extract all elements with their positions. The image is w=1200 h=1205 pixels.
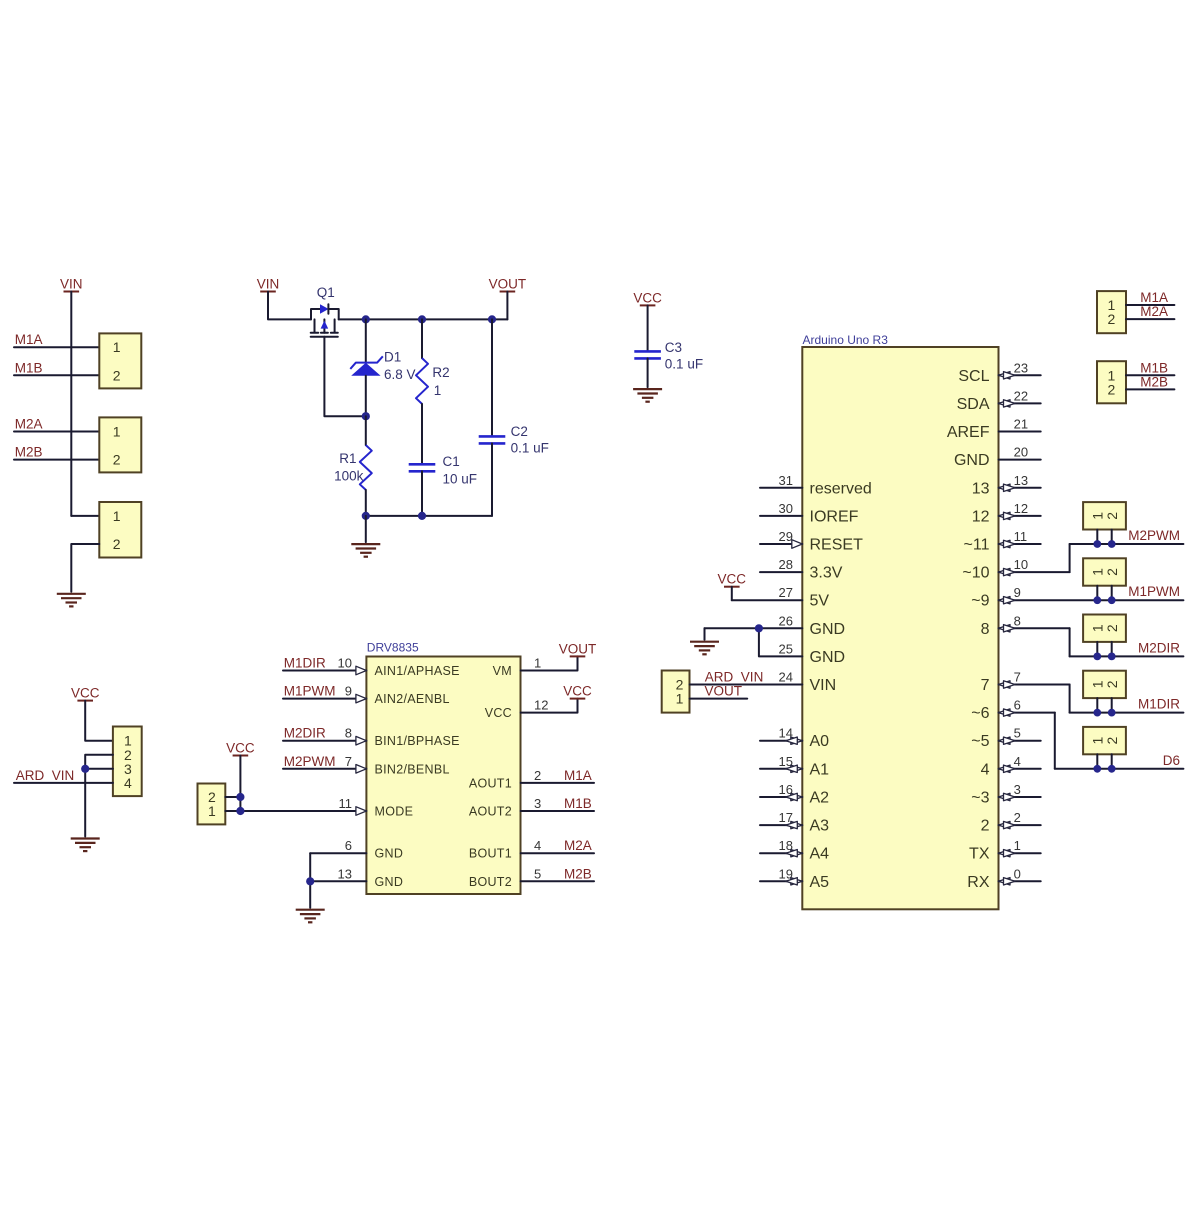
wire C1 to ground rail	[421, 471, 423, 516]
wire Arduino pin 0 RX stub (right)	[967, 866, 1040, 891]
svg-text:M2DIR: M2DIR	[284, 726, 326, 741]
wire net ARD_VIN to J-PWR2 pin 4	[14, 768, 113, 783]
svg-text:12: 12	[972, 508, 990, 525]
wire Arduino pin 9 ~9 stub (right)	[971, 585, 1183, 610]
transistor Q1 (reverse protection P-MOSFET)	[311, 285, 339, 337]
junction M2DIR pin2	[1108, 653, 1116, 661]
ground (J-PWR2)	[71, 839, 100, 852]
svg-text:AOUT2: AOUT2	[469, 805, 512, 819]
svg-text:M1A: M1A	[564, 768, 592, 783]
wire M2DIR rail	[1070, 640, 1184, 656]
connector J-MODE (2-pin)	[198, 784, 226, 825]
wire Arduino pin 8 8 stub (right)	[981, 613, 1070, 638]
junction GND riser / pin 3	[81, 765, 89, 773]
svg-text:VCC: VCC	[485, 706, 512, 720]
connector J-M2 (motor 2 output)	[99, 417, 141, 472]
svg-text:R1: R1	[339, 451, 356, 466]
ground (DRV8835)	[296, 910, 325, 923]
svg-text:4: 4	[124, 775, 132, 791]
wire GND riser	[309, 853, 311, 908]
svg-text:7: 7	[345, 754, 352, 769]
power symbol VCC (DRV pin 12)	[563, 684, 592, 699]
capacitor C2 0.1 uF	[492, 319, 549, 455]
svg-text:1: 1	[113, 339, 121, 355]
wire DRV8835 pin 4 BOUT1 to net M2A	[469, 838, 594, 861]
svg-text:2: 2	[1104, 736, 1120, 744]
wire Arduino pin 16 A2 stub	[760, 782, 829, 807]
svg-text:M2PWM: M2PWM	[1128, 528, 1180, 543]
ground (C3)	[633, 389, 662, 402]
ground (below J-PWR)	[57, 594, 86, 607]
power symbol VCC (J-PWR2)	[71, 686, 100, 701]
svg-text:VIN: VIN	[810, 677, 837, 694]
svg-text:M2DIR: M2DIR	[1138, 640, 1180, 655]
junction GND 26/25	[755, 624, 763, 632]
capacitor C3 plates	[634, 351, 661, 358]
svg-text:5: 5	[1014, 726, 1021, 741]
svg-text:2: 2	[113, 452, 121, 468]
wire Arduino pin 2 2 stub (right)	[981, 810, 1041, 835]
svg-text:9: 9	[1014, 585, 1021, 600]
wire Arduino pin 6 ~6 stub (right)	[971, 698, 1055, 723]
wire M2PWM rail	[1070, 528, 1184, 544]
svg-text:M1A: M1A	[1140, 290, 1168, 305]
svg-text:RX: RX	[967, 874, 990, 891]
svg-text:29: 29	[779, 529, 793, 544]
node M1B wire (left)	[14, 360, 99, 375]
wire DRV8835 pin 5 BOUT2 to net M2B	[469, 866, 594, 889]
svg-text:BOUT1: BOUT1	[469, 847, 512, 861]
svg-text:A2: A2	[810, 790, 830, 807]
wire net M1PWM to DRV8835 pin 9	[283, 684, 450, 707]
svg-text:AIN2/AENBL: AIN2/AENBL	[375, 692, 450, 706]
resistor R1 body	[360, 445, 372, 490]
svg-text:~5: ~5	[971, 733, 989, 750]
wire pin 7 riser to M1DIR rail	[1069, 685, 1071, 713]
connector J-M1DIR jumper	[1083, 671, 1126, 698]
svg-text:TX: TX	[969, 846, 990, 863]
connector J-M1BM2B (top right)	[1097, 361, 1126, 403]
junction gate/D1/R1 node	[362, 412, 370, 420]
connector J-ARDVIN (2-pin, ARD_VIN/VOUT)	[662, 671, 690, 713]
svg-text:A3: A3	[810, 818, 830, 835]
wire Arduino pin 4 4 stub (right)	[981, 754, 1041, 779]
wire VOUT riser	[506, 292, 508, 320]
svg-text:M1A: M1A	[15, 332, 43, 347]
junction M2DIR pin1	[1093, 653, 1101, 661]
svg-text:VM: VM	[493, 664, 512, 678]
wire Arduino pin 21 AREF stub (right)	[947, 417, 1041, 442]
svg-text:2: 2	[1104, 568, 1120, 576]
wire DRV8835 pin 12 VCC	[485, 698, 578, 721]
power symbol VOUT (DRV VM pin)	[559, 641, 597, 656]
svg-text:GND: GND	[375, 847, 404, 861]
wire GND from J-PWR pin 2	[71, 544, 99, 592]
capacitor C3 0.1 uF	[665, 340, 703, 372]
svg-text:MODE: MODE	[375, 805, 414, 819]
power symbol VIN (left column)	[60, 277, 83, 292]
svg-text:A5: A5	[810, 874, 830, 891]
wire J-PWR2 pin 3	[85, 768, 113, 770]
svg-text:2: 2	[1104, 624, 1120, 632]
wire pin 8 riser to M2DIR rail	[1069, 628, 1071, 656]
svg-text:BOUT2: BOUT2	[469, 875, 512, 889]
wire Arduino pin 3 ~3 stub (right)	[971, 782, 1040, 807]
svg-text:7: 7	[981, 677, 990, 694]
svg-text:22: 22	[1014, 388, 1028, 403]
svg-text:6: 6	[1014, 698, 1021, 713]
svg-text:2: 2	[981, 818, 990, 835]
wire Arduino pin 18 A4 stub	[760, 838, 829, 863]
svg-text:ARD_VIN: ARD_VIN	[705, 670, 764, 685]
wire VCC down to MODE net	[239, 756, 241, 812]
wire VCC to C3	[647, 305, 649, 351]
svg-text:12: 12	[534, 698, 548, 713]
junction VM rail / R2	[418, 315, 426, 323]
svg-text:11: 11	[339, 796, 353, 811]
svg-text:A4: A4	[810, 846, 830, 863]
wire Arduino pin 20 GND stub (right)	[954, 445, 1041, 470]
svg-text:AIN1/APHASE: AIN1/APHASE	[375, 664, 460, 678]
wire Arduino pin 27 5V stub	[732, 585, 830, 610]
wire D6 rail	[1055, 753, 1184, 769]
junction VM rail / C2	[488, 315, 496, 323]
wire net M2PWM to DRV8835 pin 7	[283, 754, 450, 777]
wire net M1DIR to DRV8835 pin 10	[283, 656, 460, 679]
wire net M1A (top right)	[1126, 290, 1174, 305]
svg-text:M2A: M2A	[15, 417, 43, 432]
svg-text:A0: A0	[810, 733, 830, 750]
wire Arduino pin 14 A0 stub	[760, 726, 829, 751]
svg-text:RESET: RESET	[810, 537, 864, 554]
svg-text:M1PWM: M1PWM	[1128, 584, 1180, 599]
power symbol VOUT (protection circuit)	[489, 277, 527, 292]
junction M1DIR pin2	[1108, 709, 1116, 717]
svg-text:30: 30	[779, 501, 793, 516]
wire pin 6 riser to D6 rail	[1054, 713, 1056, 769]
svg-text:VIN: VIN	[60, 277, 83, 292]
wire M1DIR rail	[1070, 697, 1184, 713]
svg-text:GND: GND	[810, 621, 846, 638]
junction GND pins	[306, 877, 314, 885]
node M1A wire (left)	[14, 332, 99, 347]
svg-text:4: 4	[981, 761, 990, 778]
wire Arduino pin 10 ~10 stub (right)	[962, 557, 1069, 582]
wire ground rail of protection circuit	[366, 515, 492, 517]
svg-text:M1B: M1B	[15, 360, 43, 375]
junction MODE/VCC riser	[236, 807, 244, 815]
junction M1PWM pin2	[1108, 596, 1116, 604]
wire MODE net to DRV8835 pin 11	[225, 796, 413, 819]
capacitor C1 plates	[409, 464, 436, 471]
junction M1PWM pin1	[1093, 596, 1101, 604]
svg-text:31: 31	[779, 473, 793, 488]
wire Arduino pin 26 GND	[705, 627, 803, 629]
svg-text:2: 2	[1104, 512, 1120, 520]
svg-text:10: 10	[338, 656, 352, 671]
svg-text:~9: ~9	[971, 593, 989, 610]
power symbol VCC (MODE pull-up)	[226, 741, 255, 756]
svg-text:GND: GND	[954, 452, 990, 469]
wire Arduino pin 11 ~11 stub (right)	[964, 529, 1041, 554]
svg-text:D6: D6	[1163, 753, 1180, 768]
junction VCC/pin2	[236, 793, 244, 801]
wire net VOUT stub from J-ARDVIN pin 1	[690, 684, 748, 699]
wire Arduino pin 29 RESET stub	[760, 529, 863, 554]
wire Arduino pin 12 12 stub (right)	[972, 501, 1041, 526]
svg-text:VOUT: VOUT	[489, 277, 527, 292]
svg-text:M2B: M2B	[564, 866, 592, 881]
wire Arduino pin 28 3.3V stub	[760, 557, 843, 582]
wire Arduino pin 22 SDA stub (right)	[957, 388, 1041, 413]
svg-text:3: 3	[534, 796, 541, 811]
wire Arduino pin 13 13 stub (right)	[972, 473, 1041, 498]
resistor R1 100k	[334, 416, 366, 483]
junction D6 pin2	[1108, 765, 1116, 773]
svg-text:10: 10	[1014, 557, 1028, 572]
svg-text:0.1 uF: 0.1 uF	[665, 357, 703, 372]
svg-text:21: 21	[1014, 417, 1028, 432]
wire Arduino pin 5 ~5 stub (right)	[971, 726, 1040, 751]
svg-text:1: 1	[676, 691, 684, 707]
svg-text:R2: R2	[432, 365, 449, 380]
svg-text:~6: ~6	[971, 705, 989, 722]
svg-text:~10: ~10	[962, 565, 989, 582]
wire Arduino pin 25 GND	[759, 628, 802, 656]
wire net M1B (top right)	[1126, 360, 1174, 375]
svg-text:20: 20	[1014, 445, 1028, 460]
resistor R2 body	[416, 358, 428, 404]
svg-text:0: 0	[1014, 866, 1021, 881]
svg-text:6.8 V: 6.8 V	[384, 367, 416, 382]
wire Arduino pin 26 GND stub	[779, 613, 846, 638]
svg-text:10 uF: 10 uF	[443, 472, 478, 487]
wire DRV8835 pin 6 GND	[310, 838, 403, 861]
svg-text:1: 1	[208, 803, 216, 819]
junction VM rail / D1	[362, 315, 370, 323]
svg-text:M1B: M1B	[1140, 360, 1168, 375]
svg-text:VCC: VCC	[226, 741, 255, 756]
svg-text:M2B: M2B	[15, 445, 43, 460]
svg-text:1: 1	[113, 508, 121, 524]
junction D6 pin1	[1093, 765, 1101, 773]
svg-text:7: 7	[1014, 670, 1021, 685]
svg-text:GND: GND	[375, 875, 404, 889]
wire Arduino pin 1 TX stub (right)	[969, 838, 1041, 863]
wire net ARD_VIN to Arduino VIN pin 24	[690, 670, 803, 685]
svg-text:VOUT: VOUT	[705, 684, 743, 699]
svg-text:C3: C3	[665, 340, 682, 355]
svg-text:VCC: VCC	[563, 684, 592, 699]
svg-text:13: 13	[1014, 473, 1028, 488]
svg-text:26: 26	[779, 613, 793, 628]
junction rail/R1	[362, 512, 370, 520]
wire VCC to J-PWR2 pin 1	[85, 701, 113, 741]
junction rail/C1	[418, 512, 426, 520]
svg-text:28: 28	[779, 557, 793, 572]
svg-text:2: 2	[113, 536, 121, 552]
wire R2 to C1	[421, 404, 423, 464]
junction M2PWM pin1	[1093, 540, 1101, 548]
diode D1 zener 6.8 V	[350, 319, 415, 416]
IC U1 Arduino Uno R3	[802, 333, 998, 909]
svg-text:1: 1	[1014, 838, 1021, 853]
svg-text:IOREF: IOREF	[810, 508, 859, 525]
wire VIN to Q1 source	[268, 292, 311, 320]
wire Arduino pin 24 VIN stub	[779, 670, 837, 695]
wire J-MODE pin2 to VCC net	[225, 796, 240, 798]
svg-text:27: 27	[779, 585, 793, 600]
wire VIN vertical bus (left column)	[71, 292, 99, 516]
junction M1DIR pin1	[1093, 709, 1101, 717]
svg-text:100k: 100k	[334, 469, 364, 484]
svg-text:M2PWM: M2PWM	[284, 754, 336, 769]
wire rail to ground stub	[365, 516, 367, 542]
wire DRV8835 pin 1 VM to VOUT	[493, 656, 578, 679]
svg-text:8: 8	[981, 621, 990, 638]
connector J-M2DIR jumper	[1083, 615, 1126, 642]
svg-text:SCL: SCL	[958, 368, 989, 385]
wire Q1 gate down to R1/D1 node	[324, 337, 363, 416]
svg-text:13: 13	[338, 866, 352, 881]
wire net M2B (top right)	[1126, 374, 1174, 389]
wire Arduino pin 23 SCL stub (right)	[958, 360, 1040, 385]
capacitor C1 10 uF	[443, 454, 478, 487]
junction M2PWM pin2	[1108, 540, 1116, 548]
wire C2 to ground rail	[491, 443, 493, 516]
connector J-D6 jumper	[1083, 727, 1126, 754]
svg-text:11: 11	[1014, 529, 1028, 544]
svg-text:13: 13	[972, 480, 990, 497]
wire R1 to ground rail	[365, 490, 367, 516]
svg-text:5: 5	[534, 866, 541, 881]
svg-text:~3: ~3	[971, 790, 989, 807]
svg-text:BIN2/BENBL: BIN2/BENBL	[375, 762, 450, 776]
svg-text:2: 2	[1108, 381, 1116, 397]
connector J-M2PWM jumper	[1083, 502, 1126, 529]
ground (protection circuit)	[351, 544, 380, 557]
svg-text:2: 2	[113, 367, 121, 383]
wire C3 to ground	[647, 358, 649, 387]
connector J-M1AM2A (top right)	[1097, 291, 1126, 333]
wire Arduino pin 17 A3 stub	[760, 810, 829, 835]
svg-text:BIN1/BPHASE: BIN1/BPHASE	[375, 734, 460, 748]
wire Arduino pin 7 7 stub (right)	[981, 670, 1070, 695]
svg-text:2: 2	[1014, 810, 1021, 825]
svg-text:0.1 uF: 0.1 uF	[511, 441, 549, 456]
svg-text:SDA: SDA	[957, 396, 990, 413]
svg-text:M1DIR: M1DIR	[284, 656, 326, 671]
capacitor C2 plates	[479, 436, 506, 443]
wire net M2A (top right)	[1126, 304, 1174, 319]
svg-text:VCC: VCC	[71, 686, 100, 701]
connector J-M1PWM jumper	[1083, 558, 1126, 585]
svg-text:2: 2	[1108, 311, 1116, 327]
svg-text:VCC: VCC	[718, 572, 747, 587]
svg-text:A1: A1	[810, 761, 830, 778]
wire Arduino pin 31 reserved stub	[760, 473, 872, 498]
svg-text:12: 12	[1014, 501, 1028, 516]
svg-text:M1DIR: M1DIR	[1138, 697, 1180, 712]
connector J-PWR2 (4-pin)	[113, 727, 142, 797]
wire VCC riser to 5V pin	[731, 587, 733, 601]
wire net M2DIR to DRV8835 pin 8	[283, 726, 460, 749]
svg-text:M1PWM: M1PWM	[284, 684, 336, 699]
svg-text:M2B: M2B	[1140, 374, 1168, 389]
wire Arduino pin 25 GND stub	[779, 641, 846, 666]
svg-text:8: 8	[345, 726, 352, 741]
svg-text:AOUT1: AOUT1	[469, 776, 512, 790]
wire DRV8835 pin 2 AOUT1 to net M1A	[469, 768, 594, 791]
svg-text:reserved: reserved	[810, 480, 872, 497]
svg-text:1: 1	[434, 383, 442, 398]
power symbol VIN (protection circuit)	[257, 277, 280, 292]
svg-text:M1B: M1B	[564, 796, 592, 811]
wire GND stub down	[704, 628, 706, 639]
resistor R2 1	[422, 319, 450, 398]
ground (Arduino GND pins)	[690, 642, 719, 655]
svg-text:5V: 5V	[810, 593, 830, 610]
svg-text:4: 4	[534, 838, 541, 853]
power symbol VCC (Arduino 5V)	[718, 572, 747, 587]
wire DRV8835 pin 3 AOUT2 to net M1B	[469, 796, 594, 819]
wire J-PWR2 pin 2 to GND riser	[85, 755, 113, 837]
svg-text:AREF: AREF	[947, 424, 990, 441]
wire Arduino pin 19 A5 stub	[760, 866, 829, 891]
wire Arduino pin 30 IOREF stub	[760, 501, 859, 526]
svg-text:DRV8835: DRV8835	[367, 640, 419, 654]
svg-text:3: 3	[1014, 782, 1021, 797]
node M2A wire (left)	[14, 417, 99, 432]
power symbol VCC (C3)	[633, 290, 662, 305]
svg-text:25: 25	[779, 641, 793, 656]
svg-text:1: 1	[534, 656, 541, 671]
svg-text:23: 23	[1014, 360, 1028, 375]
IC U2 DRV8835 motor driver	[366, 640, 520, 894]
svg-text:VOUT: VOUT	[559, 641, 597, 656]
svg-text:2: 2	[1104, 680, 1120, 688]
svg-text:D1: D1	[384, 350, 401, 365]
connector J-PWR (VIN/GND input)	[99, 502, 141, 558]
svg-text:6: 6	[345, 838, 352, 853]
svg-text:M2A: M2A	[564, 838, 592, 853]
svg-text:4: 4	[1014, 754, 1021, 769]
svg-text:Arduino Uno R3: Arduino Uno R3	[803, 333, 889, 347]
svg-text:M2A: M2A	[1140, 304, 1168, 319]
svg-text:2: 2	[534, 768, 541, 783]
svg-text:VCC: VCC	[633, 290, 662, 305]
svg-text:1: 1	[113, 424, 121, 440]
wire M1PWM rail	[1097, 584, 1180, 600]
svg-text:C1: C1	[443, 454, 460, 469]
svg-text:~11: ~11	[964, 537, 990, 554]
wire DRV8835 pin 13 GND	[310, 866, 403, 889]
svg-text:C2: C2	[511, 424, 528, 439]
svg-text:24: 24	[779, 670, 793, 685]
connector J-M1 (motor 1 output)	[99, 333, 141, 388]
svg-text:VIN: VIN	[257, 277, 280, 292]
svg-text:GND: GND	[810, 649, 846, 666]
svg-text:8: 8	[1014, 613, 1021, 628]
wire VM rail (Q1 to VOUT)	[339, 318, 508, 320]
wire Arduino pin 15 A1 stub	[760, 754, 829, 779]
svg-text:Q1: Q1	[317, 285, 335, 300]
node M2B wire (left)	[14, 445, 99, 460]
svg-text:9: 9	[345, 684, 352, 699]
wire pin 10 riser to M2PWM rail	[1069, 544, 1071, 572]
svg-text:ARD_VIN: ARD_VIN	[16, 768, 75, 783]
svg-text:3.3V: 3.3V	[810, 565, 843, 582]
